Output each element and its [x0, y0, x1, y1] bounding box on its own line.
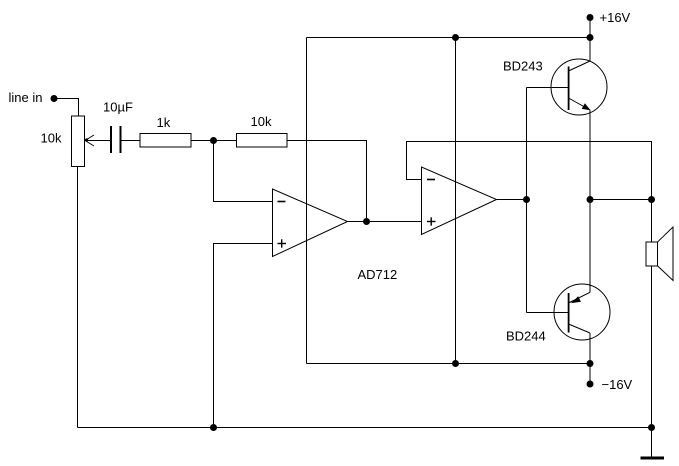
- node: base column junction dot: [523, 196, 530, 203]
- power rail: bottom -16V rail: [307, 363, 591, 365]
- node: +16V terminal dot: [587, 14, 594, 21]
- wire: speaker bottom down to ground rail: [651, 266, 653, 428]
- svg-text:+16V: +16V: [600, 10, 631, 25]
- svg-text:10k: 10k: [251, 114, 272, 129]
- node: summing junction dot: [210, 137, 217, 144]
- wire: Q2 base lead: [527, 312, 569, 314]
- pin label: U1B minus: [427, 179, 435, 181]
- op-amp U1A triangle: [273, 189, 348, 257]
- wire: speaker column upper segment: [651, 200, 653, 243]
- potentiometer R1 10k body: [72, 116, 85, 167]
- wire: potentiometer bottom to ground rail: [77, 167, 79, 428]
- wire: capacitor to resistor R2: [122, 140, 141, 142]
- svg-text:1k: 1k: [157, 115, 171, 130]
- resistor R2 1k body: [140, 134, 191, 148]
- node: top rail junction dot: [452, 34, 459, 41]
- wire: input terminal to potentiometer top: [54, 99, 79, 117]
- transistor Q2 emitter diagonal: [569, 292, 591, 303]
- wire: U1A output to U1B plus input: [348, 221, 422, 223]
- ground symbol: [641, 428, 665, 459]
- transistor Q1 emitter arrow: [582, 103, 591, 110]
- power rail: middle supply drop through U1B: [455, 38, 457, 364]
- svg-text:−16V: −16V: [602, 377, 633, 392]
- wire: U1B output to transistor base column: [497, 199, 527, 201]
- node: speaker column junction dot: [648, 196, 655, 203]
- wire: -16V terminal stub: [589, 364, 591, 385]
- wire: base column joining Q1 and Q2 bases: [526, 88, 528, 313]
- svg-text:10µF: 10µF: [103, 100, 133, 115]
- wire: non-inverting input of U1A down to ground rail: [214, 244, 273, 428]
- node: top rail right junction dot: [587, 34, 594, 41]
- transistor Q2 collector diagonal: [569, 324, 591, 333]
- transistor Q1 base bar: [568, 67, 570, 111]
- power rail: +16V top rail: [307, 37, 591, 39]
- svg-text:BD243: BD243: [503, 59, 543, 74]
- transistor Q2 base bar: [568, 293, 570, 333]
- svg-text:10k: 10k: [41, 131, 62, 146]
- wire: summing node down to inverting input of U1A: [214, 141, 273, 202]
- wire: Q1 base lead: [527, 87, 569, 89]
- wire: emitter column Q1 to Q2: [589, 110, 591, 292]
- transistor Q1 collector diagonal: [569, 61, 591, 71]
- speaker LS1 box: [646, 242, 658, 266]
- wire: R2 to summing node: [191, 140, 237, 142]
- pin label: U1A minus: [278, 201, 286, 203]
- resistor R3 10k feedback body: [237, 134, 288, 148]
- capacitor C1 10uF: [111, 126, 121, 153]
- wire: emitter node to speaker column: [590, 199, 652, 201]
- node: ground rail right junction dot: [648, 424, 655, 431]
- speaker LS1 horn: [658, 227, 673, 281]
- transistor Q2 emitter arrow: [571, 296, 581, 303]
- svg-text:AD712: AD712: [358, 267, 398, 282]
- wire: bottom ground rail: [78, 427, 652, 429]
- node: bottom rail right junction dot: [587, 360, 594, 367]
- pin label: U1B plus: [427, 217, 436, 225]
- potentiometer wiper arrow: [85, 135, 94, 146]
- transistor Q1 BD243 circle: [551, 59, 607, 115]
- node: line-in input terminal dot: [51, 95, 58, 102]
- power rail: left supply drop through U1A: [306, 38, 308, 364]
- pin label: U1A plus: [278, 239, 287, 247]
- node: ground rail junction dot at U1A plus column: [210, 424, 217, 431]
- wire: +16V terminal down to Q1 collector: [589, 18, 591, 62]
- svg-text:BD244: BD244: [506, 329, 546, 344]
- node: emitter junction dot: [587, 196, 594, 203]
- wire: wiper to capacitor: [85, 140, 110, 142]
- svg-text:line in: line in: [9, 90, 43, 105]
- wire: R3 right side over to output column: [287, 141, 367, 222]
- node: -16V terminal dot: [587, 381, 594, 388]
- transistor Q2 BD244 circle: [554, 284, 610, 340]
- op-amp U1B triangle: [422, 167, 497, 235]
- wire: U1B feedback loop from minus input to output node: [407, 142, 652, 200]
- node: U1A output junction dot: [363, 218, 370, 225]
- node: bottom rail junction dot: [452, 360, 459, 367]
- transistor Q1 emitter diagonal: [569, 98, 591, 110]
- wire: Q2 collector down to -16V rail: [589, 333, 591, 364]
